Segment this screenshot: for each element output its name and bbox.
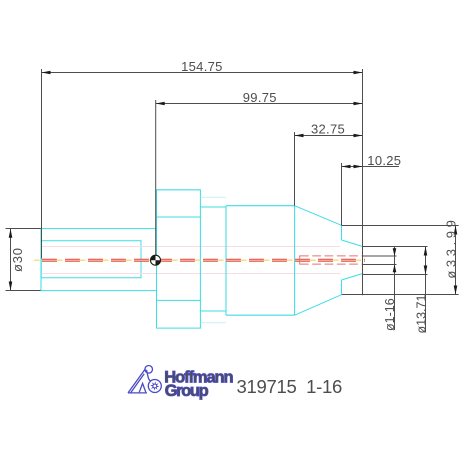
dimension D13.71 [425,247,427,333]
svg-text:99.75: 99.75 [243,90,277,105]
dimension D30 extension lines [6,229,41,291]
dimension D1-16 [394,247,396,331]
dimension D33.99 extension lines [342,226,459,295]
threaded neck [200,207,226,311]
hidden bore lines (faint pink) [42,247,341,274]
dimension 154.75 [42,72,363,74]
Hoffmann Group logo icon figure [128,366,153,393]
dimension 32.75 [295,135,363,137]
flange outline [157,190,201,328]
dimension 99.75 [156,103,363,105]
svg-text:Group: Group [165,382,209,400]
dimension 10.25 [342,166,400,168]
extension line left x41 [41,69,43,259]
red hidden bore small (clamping range) [300,255,362,264]
dimension D13.71 extension lines [363,247,428,275]
svg-text:154.75: 154.75 [181,59,223,74]
svg-text:ø33.99: ø33.99 [443,217,458,279]
dimension D33.99 [455,226,457,295]
svg-text:32.75: 32.75 [311,122,345,137]
shaft cylinder D30 outline [41,229,157,291]
centerline red dashed [34,259,365,262]
flange inner step lines [157,217,201,300]
datum origin symbol [151,255,161,265]
svg-text:319715 1-16: 319715 1-16 [237,376,342,397]
svg-text:ø13.71: ø13.71 [414,295,428,334]
nose taper cone [295,206,342,316]
extension line x362.5 [362,69,364,295]
logo gear wheel [148,380,161,393]
extension line x294.6 [294,132,296,206]
dimension D1-16 extension lines [363,256,397,265]
svg-text:10.25: 10.25 [367,153,401,168]
svg-text:ø30: ø30 [10,247,25,272]
svg-text:ø1-16: ø1-16 [383,298,397,331]
thread crest faint lines [201,197,226,322]
extension line x341.3 [341,163,343,225]
extension line x155.7 [155,100,157,255]
inner collet cone [342,240,363,280]
main body [226,206,295,316]
dimension D30 [10,229,12,291]
shaft bore rectangle [41,241,141,278]
